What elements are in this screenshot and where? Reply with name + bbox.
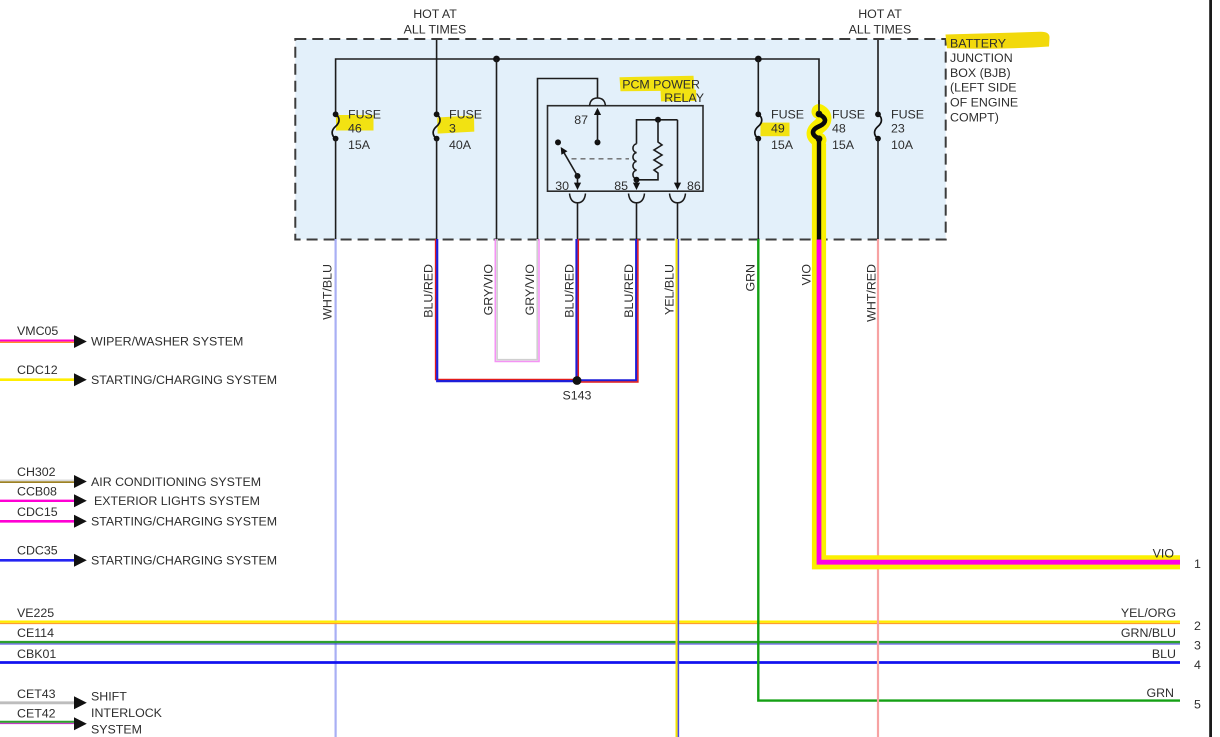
fuse F49 (15A) <box>755 107 804 152</box>
page border line at right <box>1209 0 1212 737</box>
svg-text:5: 5 <box>1194 698 1201 712</box>
highlight: fuse 46 number <box>336 115 374 131</box>
svg-text:BLU/RED: BLU/RED <box>422 264 436 318</box>
svg-text:STARTING/CHARGING SYSTEM: STARTING/CHARGING SYSTEM <box>91 514 277 528</box>
highlight: PCM POWER label <box>620 76 695 91</box>
svg-text:CBK01: CBK01 <box>17 647 56 661</box>
wire: pin 86 lead to BJB edge <box>677 203 679 239</box>
svg-text:(LEFT SIDE: (LEFT SIDE <box>950 81 1017 95</box>
svg-text:GRY/VIO: GRY/VIO <box>523 264 537 316</box>
pin 30 socket cup below relay <box>570 194 586 203</box>
svg-text:RELAY: RELAY <box>664 91 704 105</box>
connector CDC12 row <box>0 363 277 387</box>
svg-text:10A: 10A <box>891 138 914 152</box>
svg-text:FUSE: FUSE <box>449 107 482 121</box>
svg-text:SHIFT: SHIFT <box>91 690 127 704</box>
fuse F48 (15A, highlighted) <box>813 100 865 152</box>
node: pin 85 junction <box>634 177 640 183</box>
svg-text:S143: S143 <box>563 388 592 402</box>
svg-text:HOT AT: HOT AT <box>413 7 457 21</box>
svg-text:3: 3 <box>449 122 456 136</box>
fuse F23 (10A) <box>875 107 924 152</box>
pin 86 arrow <box>677 120 679 184</box>
svg-text:2: 2 <box>1194 619 1201 633</box>
svg-text:YEL/BLU: YEL/BLU <box>663 264 677 315</box>
text BATTERY JUNCTION BOX callout <box>950 36 1018 124</box>
highlight: BATTERY label <box>946 32 1050 49</box>
svg-text:VE225: VE225 <box>17 606 54 620</box>
svg-text:46: 46 <box>348 122 362 136</box>
svg-text:WHT/BLU: WHT/BLU <box>321 264 335 320</box>
wire GRY/VIO loop (bus to pin 87) <box>495 239 539 362</box>
svg-text:ALL TIMES: ALL TIMES <box>849 23 912 37</box>
wire BLU/RED from fuse 3 to S143 <box>436 239 577 381</box>
svg-text:FUSE: FUSE <box>348 107 381 121</box>
svg-text:VMC05: VMC05 <box>17 324 58 338</box>
svg-text:WIPER/WASHER SYSTEM: WIPER/WASHER SYSTEM <box>91 335 243 349</box>
wire: bus drop to fuse 49 <box>757 59 759 112</box>
connector CET42 row <box>0 706 163 736</box>
connector VMC05 row <box>0 324 243 349</box>
svg-text:CCB08: CCB08 <box>17 484 57 498</box>
svg-text:49: 49 <box>771 122 785 136</box>
wire: main bus inside BJB <box>336 59 819 112</box>
relay switch arm (30 to 87) <box>555 139 561 145</box>
wire VE225 YEL/ORG full width <box>0 622 1180 624</box>
svg-text:VIO: VIO <box>1153 547 1175 561</box>
wire: pin 85 lead to BJB edge <box>636 203 638 239</box>
svg-text:FUSE: FUSE <box>832 107 865 121</box>
connector CDC15 row <box>0 505 277 528</box>
wire WHT/RED from fuse 23 down <box>877 239 879 737</box>
svg-text:BLU/RED: BLU/RED <box>622 264 636 318</box>
svg-text:BOX (BJB): BOX (BJB) <box>950 66 1011 80</box>
wire: fuse 23 output down inside BJB <box>877 139 879 239</box>
svg-text:SYSTEM: SYSTEM <box>91 722 142 736</box>
svg-text:FUSE: FUSE <box>771 107 804 121</box>
pin 87 pass-through arc on relay top edge <box>590 98 606 107</box>
svg-text:GRN: GRN <box>743 264 757 292</box>
svg-text:BATTERY: BATTERY <box>950 36 1006 50</box>
svg-text:INTERLOCK: INTERLOCK <box>91 706 163 720</box>
wire: GRY/VIO riser inside BJB <box>496 59 498 239</box>
svg-text:PCM POWER: PCM POWER <box>622 78 700 92</box>
svg-text:CET43: CET43 <box>17 687 56 701</box>
highlight: fuse 48 element and highlighted VIO wire yellow band <box>819 144 1180 563</box>
relay coil <box>633 144 637 179</box>
wire: VIO highlighted magenta wire to right edge <box>819 240 1180 563</box>
svg-text:AIR CONDITIONING SYSTEM: AIR CONDITIONING SYSTEM <box>91 475 261 489</box>
wire: fuse 46 output down inside BJB <box>335 139 337 239</box>
node: resistor top junction <box>655 117 661 123</box>
svg-text:CDC15: CDC15 <box>17 505 58 519</box>
pin 85 socket cup below relay <box>629 194 645 203</box>
svg-text:COMPT): COMPT) <box>950 110 999 124</box>
svg-text:FUSE: FUSE <box>891 107 924 121</box>
battery junction box (BJB) dashed border <box>295 39 945 240</box>
svg-text:GRN/BLU: GRN/BLU <box>1121 626 1176 640</box>
svg-text:VIO: VIO <box>800 264 814 286</box>
svg-text:15A: 15A <box>348 138 371 152</box>
connector CH302 row <box>0 465 261 489</box>
wire YEL/BLU from pin 86 down <box>677 239 679 737</box>
wire GRN from fuse 49 to right edge <box>758 239 1180 701</box>
svg-text:ALL TIMES: ALL TIMES <box>404 23 467 37</box>
svg-text:GRN: GRN <box>1146 686 1174 700</box>
pin 85 arrow <box>636 180 638 184</box>
relay actuation dashed link <box>572 158 630 160</box>
svg-text:YEL/ORG: YEL/ORG <box>1121 606 1176 620</box>
svg-text:40A: 40A <box>449 138 472 152</box>
svg-text:48: 48 <box>832 122 846 136</box>
connector CCB08 row <box>0 484 260 508</box>
battery junction box (BJB) fill <box>295 39 945 240</box>
wire: coil top riser to node <box>637 120 678 144</box>
svg-text:1: 1 <box>1194 557 1201 571</box>
svg-text:86: 86 <box>687 179 701 193</box>
svg-text:BLU/RED: BLU/RED <box>563 264 577 318</box>
svg-text:STARTING/CHARGING SYSTEM: STARTING/CHARGING SYSTEM <box>91 373 277 387</box>
svg-text:BLU: BLU <box>1152 647 1176 661</box>
svg-text:15A: 15A <box>771 138 794 152</box>
node: bus junction to fuse 49 <box>755 56 762 63</box>
wire: hot feed to fuse 3 from top border <box>436 40 438 112</box>
svg-text:85: 85 <box>614 179 628 193</box>
wire: pin 30 lead to BJB edge <box>577 203 579 239</box>
highlight: fuse 49 number <box>761 123 790 137</box>
wire: fuse 48 output thick black inside BJB <box>817 139 821 240</box>
svg-text:HOT AT: HOT AT <box>858 7 902 21</box>
svg-text:87: 87 <box>574 113 588 127</box>
node: bus junction to GRY/VIO riser <box>493 56 500 63</box>
svg-text:CDC12: CDC12 <box>17 363 58 377</box>
svg-text:15A: 15A <box>832 138 855 152</box>
wire: fuse 49 output down inside BJB <box>757 139 759 239</box>
svg-text:CE114: CE114 <box>17 626 54 640</box>
svg-text:STARTING/CHARGING SYSTEM: STARTING/CHARGING SYSTEM <box>91 553 277 567</box>
wire BLU/RED from pin 30 to S143 <box>577 239 579 379</box>
svg-text:WHT/RED: WHT/RED <box>865 264 879 322</box>
wire WHT/BLU from fuse 46 down <box>335 239 337 737</box>
connector CDC35 row <box>0 544 277 568</box>
svg-text:30: 30 <box>555 179 569 193</box>
wire CBK01 BLU full width <box>0 661 1180 664</box>
relay U1: PCM POWER RELAY box <box>548 106 704 192</box>
pin 87 arrow inside relay <box>595 139 601 145</box>
relay resistor (zigzag) <box>637 120 663 180</box>
svg-text:4: 4 <box>1194 658 1201 672</box>
svg-text:JUNCTION: JUNCTION <box>950 51 1013 65</box>
wire BLU/RED from pin 85 to S143 <box>577 239 638 382</box>
splice node S143 <box>573 376 582 385</box>
wire: pin 87 external loop from GRY/VIO riser <box>538 79 598 240</box>
fuse F3 (40A) <box>433 107 482 152</box>
wire CE114 GRN/BLU full width <box>0 642 1180 644</box>
pin 86 socket cup below relay <box>670 194 686 203</box>
svg-text:3: 3 <box>1194 638 1201 652</box>
svg-text:EXTERIOR LIGHTS SYSTEM: EXTERIOR LIGHTS SYSTEM <box>94 494 260 508</box>
svg-text:GRY/VIO: GRY/VIO <box>481 264 495 316</box>
wire: fuse 3 output down inside BJB <box>436 139 438 239</box>
svg-text:23: 23 <box>891 122 905 136</box>
fuse F46 (15A) <box>332 107 381 152</box>
wire: hot feed to fuse 23 from top border <box>877 40 879 112</box>
svg-text:OF ENGINE: OF ENGINE <box>950 96 1018 110</box>
connector CET43 row <box>0 687 127 709</box>
svg-text:CET42: CET42 <box>17 707 56 721</box>
pin 30 arrow <box>577 176 579 184</box>
highlight: fuse 3 number <box>437 115 474 133</box>
svg-text:CDC35: CDC35 <box>17 544 58 558</box>
highlight: RELAY label <box>661 90 697 102</box>
svg-text:CH302: CH302 <box>17 465 56 479</box>
